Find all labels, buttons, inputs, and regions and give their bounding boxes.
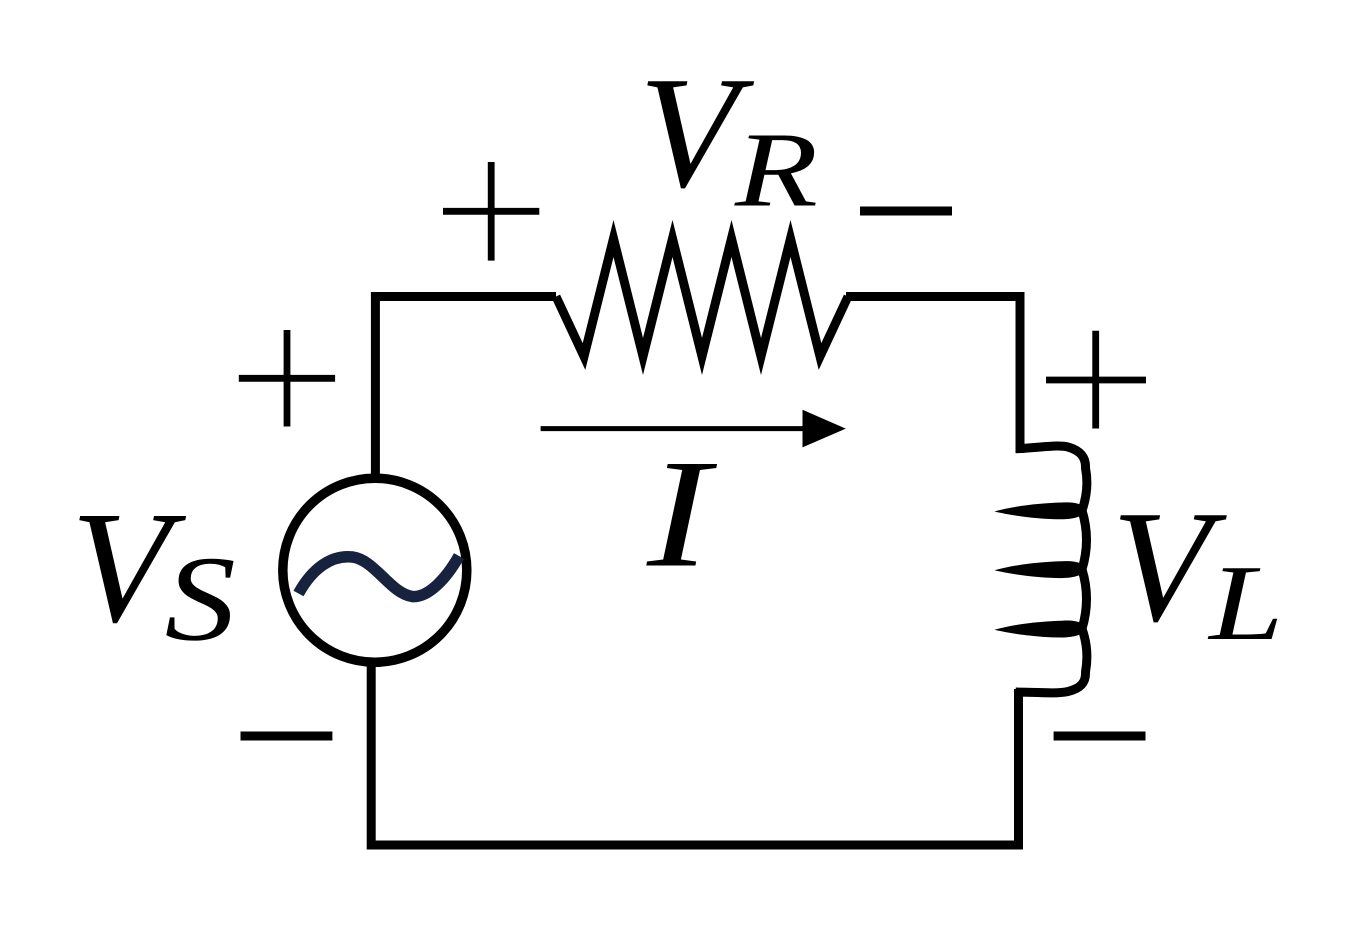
minus sign bottom-right (- of VL) xyxy=(1054,732,1146,741)
ac source U1 circle xyxy=(283,478,467,662)
svg-text:I: I xyxy=(646,428,718,600)
wire bottom (source bottom lead, bottom rail, inductor bottom lead) xyxy=(371,661,1018,845)
svg-text:L: L xyxy=(1207,544,1283,663)
plus sign top-left (+ of VR) xyxy=(443,162,539,261)
current arrow shaft xyxy=(541,426,808,431)
inductor tooth 3 xyxy=(995,621,1086,638)
minus sign bottom-left (- of VS) xyxy=(241,732,333,741)
svg-text:S: S xyxy=(165,531,236,666)
wire top-right (resistor to inductor top) xyxy=(846,297,1020,454)
wire top-left (source top lead to resistor) xyxy=(375,297,556,480)
inductor tooth 1 xyxy=(995,502,1086,519)
minus sign top-right (- of VR) xyxy=(860,207,952,216)
inductor L spine (coil) xyxy=(1016,446,1087,693)
plus sign right (+ of VL) xyxy=(1046,331,1146,429)
plus sign left (+ of VS) xyxy=(239,330,335,427)
current arrow head xyxy=(803,410,846,448)
ac source sine wave xyxy=(299,556,460,597)
resistor R (zigzag) xyxy=(556,239,848,357)
svg-text:R: R xyxy=(734,111,818,229)
inductor tooth 2 xyxy=(995,561,1086,578)
